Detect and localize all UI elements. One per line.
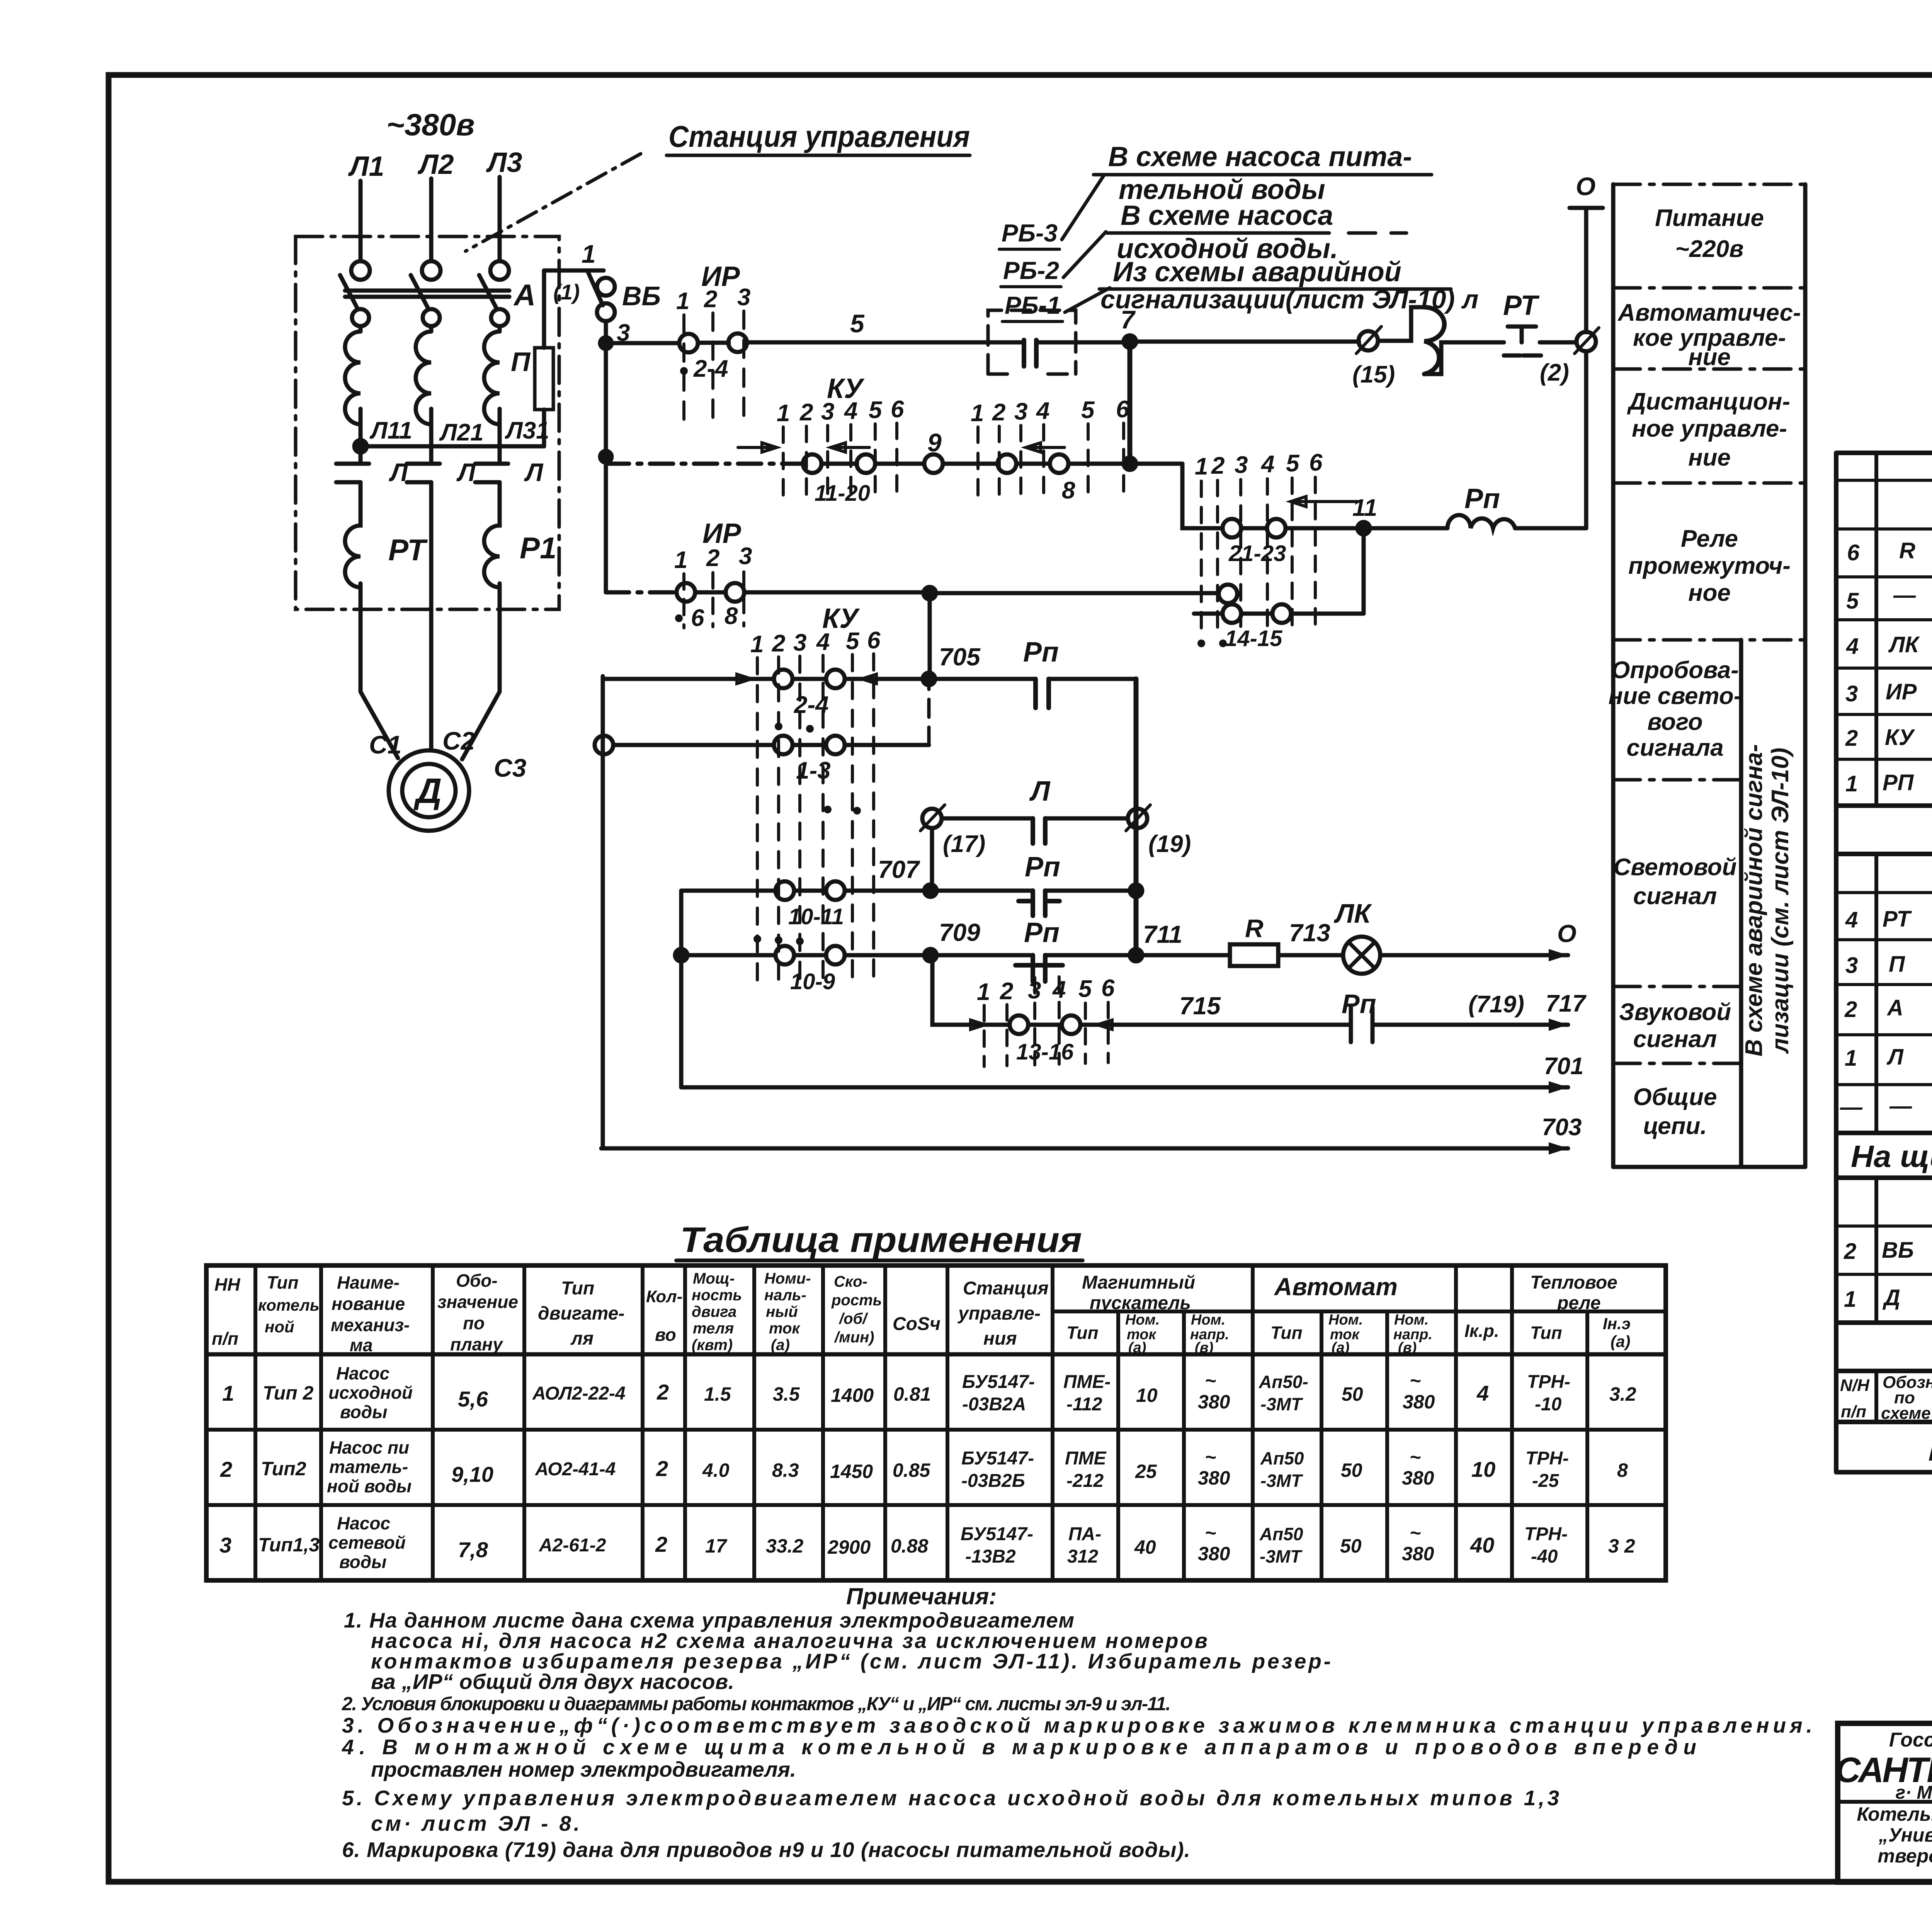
svg-text:6: 6: [1847, 540, 1860, 565]
header verticals: [1876, 1371, 1932, 1422]
leader RB2 to note: [1063, 232, 1106, 277]
svg-text:АОЛ2-22-4: АОЛ2-22-4: [532, 1383, 626, 1404]
svg-text:Ном.: Ном.: [1328, 1312, 1363, 1328]
svg-text:ток: ток: [769, 1320, 800, 1337]
svg-text:6: 6: [891, 396, 904, 423]
svg-text:715: 715: [1179, 992, 1221, 1020]
node 9: [924, 454, 943, 473]
svg-text:Таблица применения: Таблица применения: [680, 1220, 1082, 1260]
svg-text:Л21: Л21: [439, 419, 484, 446]
svg-text:9: 9: [927, 428, 942, 457]
svg-text:Котельная с 4котлами: Котельная с 4котлами: [1857, 1803, 1932, 1825]
svg-text:/мин): /мин): [834, 1329, 874, 1346]
header row frame: [1836, 1371, 1932, 1422]
node 709: [924, 949, 937, 961]
svg-text:сигнала: сигнала: [1626, 735, 1723, 761]
band na shite stancij: [1836, 1133, 1932, 1178]
svg-text:О: О: [1576, 172, 1595, 201]
wire 715 rail: [1028, 1023, 1568, 1027]
svg-text:ние свето-: ние свето-: [1609, 683, 1742, 709]
svg-text:Д: Д: [413, 771, 442, 811]
equipment table2 frame: [1836, 854, 1932, 1133]
step to 21-23 rail: [1130, 462, 1182, 466]
svg-text:5: 5: [1846, 588, 1859, 614]
svg-text:(а): (а): [1332, 1340, 1349, 1356]
svg-text:Л2: Л2: [417, 149, 454, 180]
svg-text:6. Маркировка (719) дана для: 6. Маркировка (719) дана для приводов н9…: [342, 1838, 1190, 1862]
svg-text:CoSч: CoSч: [893, 1314, 940, 1334]
release coil phase 3: [484, 326, 500, 446]
svg-text:С3: С3: [494, 753, 526, 782]
svg-text:4: 4: [816, 629, 830, 655]
svg-text:50: 50: [1340, 1535, 1362, 1557]
wire 715 drop: [932, 955, 1010, 1025]
svg-text:11: 11: [1352, 495, 1377, 521]
VB feeder vertical: [604, 321, 608, 592]
svg-text:ность: ность: [692, 1287, 742, 1304]
contact on O wire: [1577, 332, 1596, 351]
bus wire L11-L31: [361, 444, 544, 449]
svg-text:0.88: 0.88: [891, 1535, 929, 1557]
junction ir68: [923, 587, 936, 599]
svg-text:Автоматичес-: Автоматичес-: [1617, 299, 1801, 326]
control station dash-dot box: [296, 236, 559, 609]
coil L steps: [1378, 307, 1495, 374]
svg-text:РБ-3: РБ-3: [1002, 219, 1058, 247]
row lines: [206, 1430, 1666, 1505]
band u mehanizma: [1836, 1323, 1932, 1371]
svg-text:7,8: 7,8: [458, 1537, 488, 1562]
svg-text:Номи-: Номи-: [764, 1270, 811, 1287]
KU g3 arrow2: [862, 674, 900, 684]
svg-text:R: R: [1899, 538, 1915, 563]
svg-text:2: 2: [1844, 997, 1857, 1022]
svg-text:ния: ния: [983, 1328, 1017, 1349]
svg-text:Общие: Общие: [1633, 1084, 1717, 1111]
svg-text:11-20: 11-20: [815, 481, 870, 506]
svg-text:П: П: [511, 347, 531, 377]
svg-text:На щите станций управления: На щите станций управления ЩСУ: [1851, 1139, 1932, 1173]
svg-text:Л3: Л3: [486, 147, 522, 178]
svg-text:312: 312: [1067, 1546, 1098, 1567]
svg-text:2-4: 2-4: [794, 692, 829, 718]
svg-text:2: 2: [706, 545, 719, 571]
svg-text:40: 40: [1134, 1536, 1156, 1558]
svg-text:схеме: схеме: [1881, 1404, 1931, 1423]
svg-text:РТ: РТ: [1503, 290, 1540, 321]
svg-text:ние: ние: [1688, 444, 1731, 471]
svg-text:(в): (в): [1398, 1340, 1417, 1356]
svg-text:Магнитный: Магнитный: [1082, 1272, 1195, 1293]
equipment table1 frame: [1836, 453, 1932, 806]
svg-text:Рп: Рп: [1464, 483, 1500, 514]
svg-text:1: 1: [1845, 1046, 1857, 1071]
svg-text:-112: -112: [1066, 1394, 1102, 1415]
svg-text:2: 2: [220, 1457, 232, 1481]
svg-text:Рп: Рп: [1023, 637, 1059, 668]
svg-text:ПА-: ПА-: [1068, 1524, 1101, 1544]
svg-text:Световой: Световой: [1614, 854, 1737, 881]
L aux contact: [1033, 818, 1045, 844]
svg-text:рость: рость: [831, 1292, 882, 1309]
svg-text:цепи.: цепи.: [1643, 1113, 1707, 1139]
t2 verticals: [1876, 854, 1932, 1133]
svg-text:Примечания:: Примечания:: [846, 1583, 997, 1609]
KU group4 dashes: [984, 977, 1108, 1066]
svg-text:ТРН-: ТРН-: [1524, 1524, 1568, 1544]
IR contact 2-4: [679, 334, 698, 352]
title block frame: [1838, 1723, 1932, 1882]
svg-text:Л11: Л11: [369, 417, 412, 444]
svg-text:Ско-: Ско-: [834, 1273, 867, 1290]
svg-text:8: 8: [724, 603, 738, 629]
svg-text:3: 3: [793, 629, 806, 656]
svg-text:4: 4: [1260, 451, 1274, 478]
svg-text:1: 1: [750, 631, 764, 658]
svg-text:Обо-: Обо-: [456, 1270, 498, 1291]
svg-text:5: 5: [1078, 976, 1092, 1002]
motor D outer: [389, 750, 469, 831]
svg-text:17: 17: [705, 1535, 728, 1557]
left drop 705: [601, 676, 605, 1148]
svg-text:БУ5147-: БУ5147-: [961, 1524, 1033, 1544]
contactor contact L phase1: [336, 446, 369, 514]
svg-text:1.5: 1.5: [704, 1383, 731, 1405]
contactor contact L phase3: [475, 446, 508, 514]
wire phase 1 drop: [359, 181, 363, 261]
contact 10-11: [776, 881, 794, 900]
contact 13-16: [1010, 1015, 1028, 1034]
junction rail5: [600, 337, 612, 349]
svg-text:-3МТ: -3МТ: [1260, 1471, 1303, 1491]
svg-text:Наиме-: Наиме-: [337, 1272, 400, 1293]
svg-text:2: 2: [799, 399, 813, 426]
svg-text:-212: -212: [1066, 1471, 1104, 1491]
svg-text:-03В2Б: -03В2Б: [961, 1471, 1025, 1491]
svg-text:Автомат: Автомат: [1274, 1273, 1398, 1301]
junction v57: [1124, 457, 1136, 470]
row line 5: [1613, 778, 1741, 782]
svg-text:Насос: Насос: [337, 1513, 390, 1533]
svg-text:А2-61-2: А2-61-2: [539, 1535, 606, 1556]
svg-text:4: 4: [1845, 907, 1858, 932]
node 707: [924, 884, 937, 897]
svg-text:2: 2: [772, 630, 785, 657]
KU g4 arrow1: [947, 1020, 985, 1029]
svg-text:~: ~: [1410, 1446, 1421, 1468]
svg-text:Рп: Рп: [1025, 852, 1060, 883]
svg-text:(19): (19): [1148, 831, 1191, 857]
left circle 1-3: [595, 736, 613, 754]
equipment table3 frame: [1836, 1178, 1932, 1323]
svg-text:Л31: Л31: [505, 417, 549, 444]
wire 707 rail: [681, 889, 1136, 893]
KU group1 arrow: [738, 443, 777, 452]
svg-text:5: 5: [1286, 450, 1300, 477]
motor lead 3: [462, 583, 500, 759]
svg-text:R: R: [1245, 914, 1264, 942]
svg-text:1: 1: [582, 240, 596, 268]
t3 row lines: [1836, 1226, 1932, 1274]
svg-text:-3МТ: -3МТ: [1260, 1394, 1303, 1414]
svg-text:3 2: 3 2: [1608, 1535, 1635, 1557]
svg-text:6: 6: [1309, 449, 1323, 476]
svg-text:1: 1: [1195, 453, 1208, 480]
svg-text:4: 4: [1036, 398, 1049, 424]
svg-text:~220в: ~220в: [1675, 236, 1743, 262]
svg-text:3: 3: [1845, 953, 1858, 978]
thermal contact RT: [1495, 327, 1576, 355]
svg-text:~380в: ~380в: [386, 107, 475, 142]
IR group3 arrow: [1291, 497, 1358, 507]
svg-text:Насос пи: Насос пи: [329, 1437, 409, 1458]
svg-text:ВБ: ВБ: [622, 281, 661, 311]
svg-text:сигнал: сигнал: [1633, 1026, 1717, 1053]
svg-text:ЛК: ЛК: [1333, 898, 1372, 929]
svg-text:значение: значение: [437, 1292, 518, 1312]
svg-text:двигате-: двигате-: [538, 1303, 624, 1324]
svg-text:Тип: Тип: [1530, 1323, 1562, 1343]
t1 verticals: [1876, 453, 1932, 806]
svg-text:Реле: Реле: [1681, 526, 1738, 552]
wire 9 rail: [606, 462, 803, 466]
contactor contact L phase2: [407, 446, 440, 514]
wire 11 rail: [1182, 464, 1586, 528]
svg-text:717: 717: [1546, 990, 1587, 1017]
svg-text:ТРН-: ТРН-: [1526, 1448, 1569, 1469]
junction 707 right: [1130, 884, 1142, 897]
junction 7: [1124, 335, 1136, 348]
contact 21-23: [1223, 519, 1241, 537]
svg-text:РП: РП: [1883, 770, 1914, 795]
svg-text:Дистанцион-: Дистанцион-: [1627, 388, 1790, 415]
left drop 707: [679, 891, 684, 1087]
arrow O right: [1549, 949, 1568, 961]
wire 5 rail: [606, 342, 1359, 343]
svg-text:40: 40: [1470, 1533, 1494, 1557]
contact 1-3: [774, 736, 793, 754]
leader RB3 to note: [1062, 175, 1104, 240]
svg-text:4: 4: [844, 398, 857, 424]
row line bottom: [1613, 1165, 1805, 1169]
svg-text:Л: Л: [1029, 776, 1051, 807]
svg-text:РТ: РТ: [388, 533, 428, 567]
svg-text:Ном.: Ном.: [1191, 1312, 1225, 1328]
svg-text:~: ~: [1410, 1522, 1421, 1544]
function column frame: [1613, 184, 1805, 1167]
node 711: [1130, 949, 1142, 961]
svg-text:ля: ля: [570, 1328, 594, 1349]
svg-text:татель-: татель-: [329, 1457, 408, 1477]
svg-text:Л: Л: [389, 458, 408, 486]
svg-text:воды: воды: [340, 1402, 387, 1422]
app table verticals: [255, 1265, 1512, 1580]
svg-text:3.5: 3.5: [773, 1383, 800, 1405]
svg-text:-3МТ: -3МТ: [1260, 1546, 1303, 1566]
svg-text:3: 3: [1235, 452, 1248, 478]
svg-text:5,6: 5,6: [458, 1387, 488, 1411]
t2 row lines: [1836, 893, 1932, 985]
node 705: [923, 673, 935, 685]
svg-text:707: 707: [878, 855, 920, 883]
junction 709 left: [675, 949, 687, 961]
phase2 straight wire: [429, 514, 434, 583]
svg-text:(а): (а): [1128, 1340, 1146, 1356]
svg-text:сигнализации(лист ЭЛ-10) л: сигнализации(лист ЭЛ-10) л: [1100, 285, 1478, 314]
svg-text:управле-: управле-: [957, 1303, 1041, 1324]
station leader line: [466, 154, 641, 251]
svg-text:Тип: Тип: [1066, 1323, 1099, 1343]
svg-text:НН: НН: [214, 1274, 240, 1294]
breaker linkage bar: [345, 291, 509, 297]
svg-text:БУ5147-: БУ5147-: [961, 1448, 1034, 1469]
IR2 column dashes: [684, 572, 744, 628]
svg-text:(2): (2): [1540, 359, 1569, 386]
IR column dashes: [684, 311, 744, 427]
svg-text:Л1: Л1: [348, 151, 384, 182]
svg-text:Ап50: Ап50: [1259, 1524, 1303, 1544]
svg-text:ИР: ИР: [1886, 679, 1917, 704]
svg-text:О: О: [1557, 920, 1577, 947]
svg-text:3: 3: [219, 1533, 231, 1557]
svg-text:10: 10: [1471, 1457, 1495, 1481]
row line 7: [1613, 1062, 1741, 1065]
release coil phase 2: [416, 326, 431, 446]
junction bus phase1: [354, 440, 367, 452]
svg-text:5: 5: [850, 309, 865, 338]
svg-text:КУ: КУ: [1885, 725, 1915, 750]
band perechen: [1836, 1422, 1932, 1472]
svg-text:6: 6: [691, 605, 704, 631]
svg-text:ное: ное: [1688, 580, 1731, 606]
svg-text:(15): (15): [1352, 361, 1395, 388]
sub verticals: [1118, 1311, 1587, 1580]
svg-text:(1): (1): [553, 280, 580, 304]
svg-text:0.85: 0.85: [893, 1459, 931, 1481]
wire phase 2 drop: [429, 179, 434, 261]
KU group2 dashes: [978, 423, 1124, 500]
svg-text:В схеме аварийной сигна-: В схеме аварийной сигна-: [1741, 744, 1767, 1056]
row line top: [1613, 183, 1805, 186]
svg-text:10: 10: [1136, 1384, 1158, 1406]
svg-text:9,10: 9,10: [451, 1462, 493, 1486]
svg-text:Мощ-: Мощ-: [693, 1270, 735, 1287]
svg-text:4. В монтажной схеме щита: 4. В монтажной схеме щита котельной в ма…: [342, 1735, 1696, 1759]
RB dashed box: [988, 310, 1076, 374]
svg-text:14-15: 14-15: [1225, 626, 1282, 651]
wire 14-15 rail: [1194, 528, 1364, 614]
svg-text:701: 701: [1544, 1053, 1583, 1080]
wire phase 3 drop: [498, 177, 502, 261]
fuse P wire: [542, 270, 546, 446]
svg-text:2: 2: [1845, 726, 1858, 751]
svg-text:Тип1,3: Тип1,3: [258, 1534, 320, 1556]
svg-text:ва „ИР“ общий для двух насо: ва „ИР“ общий для двух насосов.: [371, 1670, 734, 1694]
svg-text:2: 2: [992, 399, 1005, 426]
svg-text:4: 4: [1846, 634, 1859, 659]
RP contact 705: [1036, 679, 1049, 708]
header sub line: [1053, 1310, 1666, 1313]
contact (17): [922, 809, 942, 828]
svg-text:5: 5: [869, 397, 883, 423]
svg-text:2: 2: [656, 1456, 668, 1481]
svg-text:-03В2А: -03В2А: [962, 1394, 1026, 1415]
svg-text:0.81: 0.81: [893, 1383, 931, 1405]
svg-text:~: ~: [1205, 1446, 1216, 1468]
svg-text:ВБ: ВБ: [1882, 1238, 1914, 1263]
svg-text:Насос: Насос: [336, 1363, 389, 1383]
svg-text:А: А: [513, 278, 536, 312]
svg-text:~: ~: [1205, 1370, 1216, 1391]
leader RB1 to note: [1065, 288, 1110, 312]
lamp LK: [1343, 937, 1380, 974]
svg-text:С1: С1: [369, 730, 401, 759]
release coil phase 1: [345, 326, 361, 446]
svg-text:703: 703: [1542, 1114, 1582, 1141]
svg-text:1: 1: [971, 400, 984, 427]
svg-text:10-11: 10-11: [788, 904, 844, 929]
svg-text:3: 3: [821, 398, 834, 425]
svg-text:380: 380: [1198, 1467, 1230, 1489]
row line 2: [1613, 367, 1805, 371]
svg-text:2: 2: [656, 1380, 669, 1404]
svg-text:(а): (а): [771, 1337, 790, 1354]
svg-text:Перечень электрооборудовани: Перечень электрооборудования: [1928, 1433, 1932, 1467]
svg-text:во: во: [655, 1325, 676, 1345]
svg-text:ной: ной: [265, 1318, 294, 1336]
svg-text:ной воды: ной воды: [327, 1476, 412, 1496]
svg-text:Ап50-: Ап50-: [1259, 1372, 1308, 1392]
svg-text:(а): (а): [1611, 1332, 1630, 1350]
svg-text:сетевой: сетевой: [328, 1532, 406, 1553]
svg-text:33.2: 33.2: [766, 1535, 804, 1557]
svg-text:5. Схему управления электродв: 5. Схему управления электродвигателем на…: [342, 1786, 1559, 1810]
svg-text:теля: теля: [693, 1320, 734, 1337]
wire 703 rail: [601, 1146, 1568, 1151]
svg-text:Тип 2: Тип 2: [263, 1382, 314, 1404]
fuse P body: [535, 348, 553, 410]
svg-text:Госстрой СССР: Госстрой СССР: [1889, 1729, 1932, 1751]
row line 6: [1613, 985, 1741, 988]
wire 701 rail: [681, 1085, 1568, 1090]
svg-text:АО2-41-4: АО2-41-4: [535, 1459, 616, 1480]
resistor R: [1230, 944, 1278, 966]
svg-text:ИР: ИР: [702, 518, 742, 549]
svg-text:Звуковой: Звуковой: [1619, 999, 1731, 1026]
KU g3 arrow1: [713, 674, 752, 684]
RP contact 715: [1351, 1007, 1372, 1042]
svg-text:Станция управления: Станция управления: [668, 119, 970, 153]
svg-text:3.2: 3.2: [1609, 1383, 1636, 1405]
svg-text:Тип: Тип: [267, 1272, 299, 1293]
wire 705 rail: [603, 677, 1136, 681]
wire 709 rail: [681, 953, 1568, 957]
RP contact 707: [1019, 891, 1060, 916]
svg-text:3: 3: [1014, 398, 1027, 425]
arrow 703: [1549, 1142, 1568, 1155]
application table frame: [206, 1265, 1666, 1580]
svg-text:Д: Д: [1882, 1285, 1900, 1310]
svg-text:БУ5147-: БУ5147-: [962, 1372, 1035, 1392]
contact 11-20: [803, 454, 821, 473]
svg-text:Кол-: Кол-: [646, 1287, 682, 1306]
svg-text:3: 3: [1845, 681, 1858, 706]
svg-text:Ном.: Ном.: [1394, 1312, 1429, 1328]
svg-text:1: 1: [222, 1381, 234, 1405]
svg-text:РБ-1: РБ-1: [1005, 291, 1061, 319]
svg-text:50: 50: [1342, 1383, 1363, 1405]
wire 1 to VB: [544, 269, 604, 273]
